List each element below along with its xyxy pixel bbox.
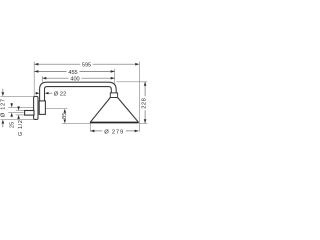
svg-text:228: 228 xyxy=(142,98,148,109)
dimension D25 bottom arrow xyxy=(11,116,13,117)
extension line 455/400 right xyxy=(114,69,116,84)
dimension 85 top arrow xyxy=(64,109,67,113)
extension line cone left xyxy=(89,123,91,131)
svg-text:G 1/2: G 1/2 xyxy=(18,120,24,136)
dimension 595 right arrow xyxy=(135,63,139,66)
dimension 455 left arrow xyxy=(34,70,38,73)
dimension D127 top arrow xyxy=(2,89,4,93)
extension line 85 bottom xyxy=(62,122,90,124)
svg-text:Ø 279: Ø 279 xyxy=(104,129,124,135)
dimension 455 line xyxy=(34,70,66,72)
extension line 228 top xyxy=(117,81,148,83)
shower arm inner contour xyxy=(45,87,112,101)
extension line plate bottom xyxy=(0,119,33,121)
shower arm outer contour xyxy=(40,82,117,101)
wall stub G1/2 xyxy=(25,111,34,116)
dimension 400 line xyxy=(42,77,68,79)
dimension G12 bottom arrow xyxy=(18,118,20,119)
dimension 400 right arrow xyxy=(111,77,115,80)
dimension 595 line xyxy=(34,63,80,65)
dimension 228 bottom arrow xyxy=(144,119,147,123)
cone left slope xyxy=(90,98,110,123)
dimension 595 left arrow xyxy=(34,63,38,66)
dimension D127 bottom arrow xyxy=(2,123,4,127)
head neck connector xyxy=(110,93,117,98)
svg-text:Ø 22: Ø 22 xyxy=(54,91,67,97)
dimension G12 top arrow xyxy=(18,106,20,107)
dimension D279 left arrow xyxy=(90,130,94,133)
extension line 595 right / cone right xyxy=(138,62,140,132)
dimension D25 top arrow xyxy=(11,103,13,104)
svg-text:85: 85 xyxy=(62,112,68,119)
extension line 25 bottom xyxy=(8,112,24,114)
extension line 25 top xyxy=(8,106,33,108)
extension line plate top xyxy=(0,95,33,97)
dimension 85 bottom arrow xyxy=(64,120,66,121)
cone base line xyxy=(90,122,139,124)
extension line G1/2 bottom xyxy=(16,114,25,116)
dimension 228 top arrow xyxy=(144,82,147,86)
extension line G1/2 top xyxy=(16,110,25,112)
dimension 455 right arrow xyxy=(111,70,115,73)
extension line wall face xyxy=(33,62,35,96)
wall connector body xyxy=(39,101,45,115)
svg-text:Ø 127: Ø 127 xyxy=(1,98,7,117)
svg-text:595: 595 xyxy=(82,63,91,69)
svg-text:455: 455 xyxy=(68,70,77,76)
svg-text:25: 25 xyxy=(9,122,15,128)
cone right slope xyxy=(118,98,139,123)
dimension 228 line xyxy=(144,82,146,97)
extension line 228 bottom xyxy=(139,122,147,124)
dimension D279 right arrow xyxy=(135,130,139,133)
wall escutcheon plate xyxy=(34,96,38,119)
dimension 400 left arrow xyxy=(42,77,46,80)
dimension D22 left arrow xyxy=(35,92,36,94)
extension line 400 left xyxy=(41,76,43,83)
dimension D279 line xyxy=(90,130,102,132)
extension line 85 top xyxy=(46,108,68,110)
dimension D22 right arrow xyxy=(49,92,53,94)
